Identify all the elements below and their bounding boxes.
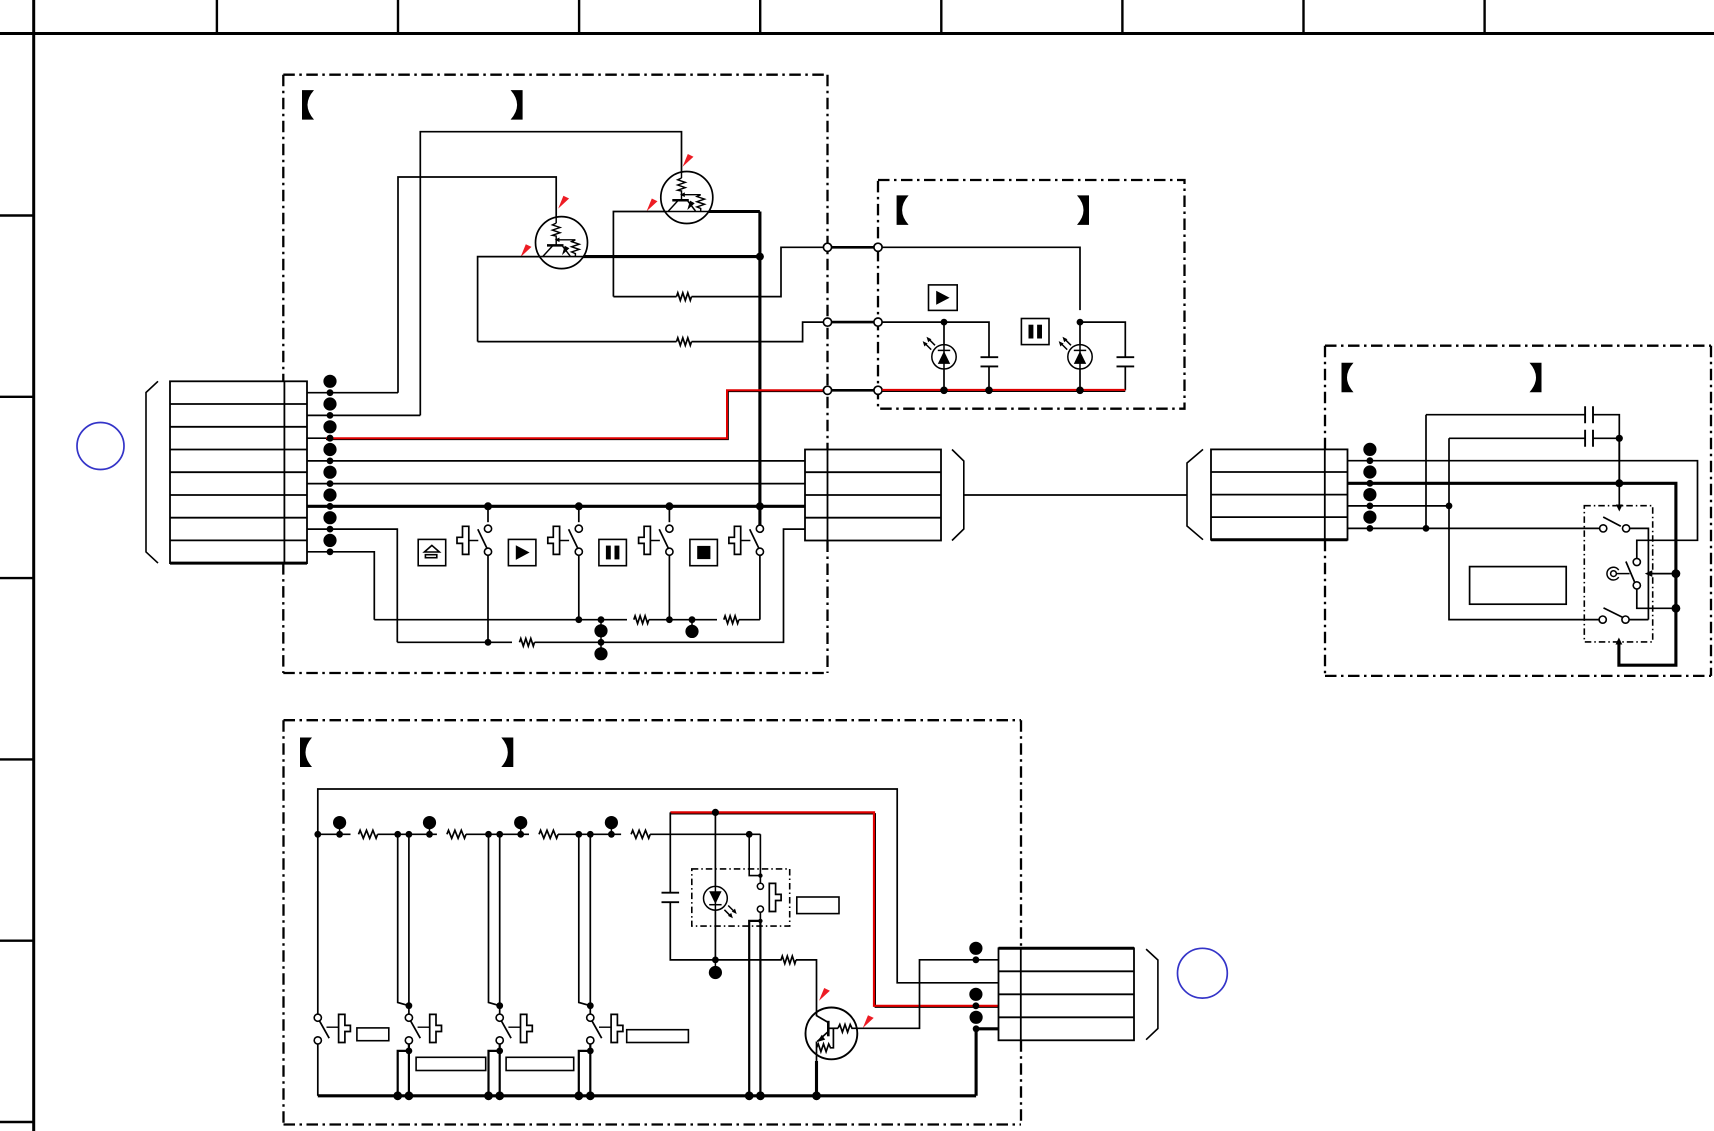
CN4 pin dots column <box>969 942 982 1033</box>
junction dots on ground bus <box>393 1091 821 1100</box>
wire Q1 base riser <box>478 257 540 342</box>
pause key icon <box>599 539 627 565</box>
mech link into switch box top <box>1618 483 1620 505</box>
resistor R4 on line1 <box>724 616 739 624</box>
switch SW-C <box>1599 616 1606 623</box>
switch SW-B (changeover) <box>1633 558 1640 565</box>
tie point dots above sense row <box>333 816 618 838</box>
block border box2 (dash-dot) <box>878 180 1185 409</box>
inter-board link middle <box>823 321 882 324</box>
wire CN3 pin2 thick net <box>1348 483 1676 665</box>
CN3 pin dots column <box>1363 443 1376 532</box>
junction dots line1 <box>575 616 695 623</box>
stop switch S4 <box>756 525 763 532</box>
wire CN1 pin7 riser <box>307 529 397 642</box>
ground bus (thick) <box>318 1094 976 1097</box>
leaf switch plunger <box>769 883 781 911</box>
junction supply/top <box>314 831 321 838</box>
eject key icon <box>418 539 446 565</box>
heading bracket close box3 <box>1530 363 1542 393</box>
junction dots on red return <box>940 387 1084 395</box>
junction pairs on sense row <box>394 831 593 838</box>
wire CN1 pin1 stub <box>307 392 398 394</box>
heading bracket close box4 <box>501 738 513 768</box>
heading bracket open box4 <box>300 738 312 768</box>
wire net pin1 to Q1 collector <box>398 177 556 393</box>
leaf switch contacts <box>757 883 763 889</box>
wire pause LED feed <box>882 247 1080 310</box>
tie point dots below line1 <box>600 620 602 654</box>
resistor R3 on line1 <box>634 616 649 624</box>
play indicator icon <box>929 285 958 311</box>
heading bracket open box1 <box>302 90 314 120</box>
red service arrow at Q2 base <box>647 199 658 212</box>
highlight circle right <box>1178 948 1228 998</box>
pause indicator icon <box>1021 319 1049 345</box>
leaf switch return loop <box>759 912 761 921</box>
wire Q3 emitter <box>816 1055 818 1062</box>
block border box3 (dash-dot) <box>1325 346 1711 676</box>
junction pause LED node <box>1077 319 1084 326</box>
bracket CN1 board edge <box>146 381 158 563</box>
junction LED anode <box>712 809 719 816</box>
wire sense row <box>318 833 351 835</box>
junction dots on common row <box>484 502 764 510</box>
red service arrow at Q3 output <box>863 1015 874 1028</box>
wire cable CN2 to CN3 <box>964 494 1187 496</box>
wire CN1 pin5 to CN2 pin2 <box>307 483 805 485</box>
wire CN3 pin3 <box>1348 505 1450 507</box>
pause switch S3 <box>668 506 670 522</box>
wire net pin2 to Q2 collector <box>420 132 681 416</box>
capacitor C4 <box>1426 414 1585 416</box>
mech link arrow lower <box>1616 638 1623 645</box>
junction Q1 emitter / common <box>756 253 764 261</box>
junction caps to pin2 <box>1615 479 1623 487</box>
junction LED cathode node <box>712 957 719 964</box>
wire LED vertical <box>714 812 716 960</box>
inter-board link upper <box>823 246 882 249</box>
red service arrow at Q2 collector <box>683 154 694 167</box>
wire CN1 pin8 riser <box>307 552 374 620</box>
red service arrow at Q1 collector <box>558 196 569 209</box>
LED D2 (pause) <box>1079 322 1081 345</box>
block border box1 (dash-dot) <box>283 75 827 673</box>
wire play LED feed <box>882 322 989 357</box>
heading bracket open box3 <box>1342 363 1354 393</box>
wire CN1 pin3 red net <box>307 437 326 439</box>
bracket CN2 cable side <box>952 450 964 541</box>
resistor R10 (Q3 base) <box>781 956 796 964</box>
resistor R1 (Q2 base row) <box>613 296 676 298</box>
resistor R2 (Q1 base row) <box>478 341 677 343</box>
red service arrow at Q1 base <box>521 244 532 257</box>
wire key return line1 <box>374 619 627 621</box>
capacitor C2 <box>1117 357 1135 366</box>
connector CN2 (4-pin to mechanism) <box>805 450 941 541</box>
photo sensor box (dash-dot) <box>692 869 790 926</box>
switch column C <box>489 834 500 1005</box>
connector CN4 (4-pin) <box>999 948 1135 1040</box>
bracket CN3 cable side <box>1187 449 1203 539</box>
LED D1 (play) <box>943 322 945 345</box>
heading bracket open box2 <box>897 195 909 225</box>
capacitor C1 <box>981 357 999 366</box>
resistor R7 <box>447 830 466 838</box>
wire Q2 emitter (thick) <box>709 210 760 213</box>
capacitor C5 <box>1449 437 1585 439</box>
switch column A <box>317 834 319 1014</box>
red service arrow at Q3 base <box>819 988 830 1001</box>
transistor Q1 (digital transistor) <box>536 217 588 269</box>
wire Q2 base riser <box>613 212 665 297</box>
wire CN1 pin4 to CN2 pin1 <box>307 460 805 462</box>
resistor R6 <box>359 830 378 838</box>
resistor R5 on line2 <box>520 639 535 647</box>
wire key return line2 <box>397 641 512 643</box>
wire Q3 output to CN4 pin1 <box>857 960 999 1029</box>
wire common thick vertical <box>758 212 761 526</box>
junction dots on thick riser <box>1672 569 1681 578</box>
wiper feed arrow <box>1648 573 1676 575</box>
connector CN3 (4-pin from mechanism) <box>1211 449 1348 539</box>
stop key icon <box>690 539 718 565</box>
mode switch box (dashed) <box>1584 506 1652 642</box>
wire C4 to pin4 row <box>1425 415 1427 529</box>
wire CN3 pin4 to switch A <box>1348 527 1601 529</box>
wire red ground return <box>882 390 1125 392</box>
wire Q1 emitter (thick) <box>583 255 760 258</box>
wire cap C3 branch <box>669 812 671 892</box>
mechanism outline rectangle <box>1470 567 1567 605</box>
switch SW-A <box>1600 525 1607 532</box>
play key icon <box>508 539 536 565</box>
capacitor C3 <box>662 893 680 903</box>
switch column D <box>579 834 591 1005</box>
wire CN3 pin1 to switch B upper <box>1348 461 1698 559</box>
wire CN1 pin2 stub <box>307 414 420 416</box>
eject switch S1 <box>487 506 489 522</box>
wire supply top loop <box>318 789 999 983</box>
CN1 pin dots column <box>323 375 336 555</box>
play switch S2 <box>578 506 580 522</box>
inter-board link lower (red net) <box>823 389 882 392</box>
wire C5 riser to switch C <box>1449 438 1600 619</box>
highlight circle left <box>77 423 124 470</box>
junction dots line2 <box>485 639 492 646</box>
bracket CN4 cable side <box>1146 949 1158 1040</box>
resistor R9 <box>631 830 650 838</box>
wire CN1 pin6 common (thick) <box>307 505 805 508</box>
junction play LED node <box>941 319 948 326</box>
resistor R8 <box>539 830 558 838</box>
LED D3 (sensor) <box>704 886 737 918</box>
leaf switch label rect <box>797 897 839 914</box>
junction C4/C5 <box>1616 435 1623 442</box>
transistor Q2 (digital transistor) <box>661 172 713 224</box>
transistor Q3 (digital transistor) <box>806 1008 858 1060</box>
heading bracket close box2 <box>1077 195 1089 225</box>
heading bracket close box1 <box>511 90 523 120</box>
leaf switch feed loop <box>746 831 753 838</box>
connector CN1 (8-pin board connector) <box>170 381 307 563</box>
wire bus riser to CN4 pin4 (thick) <box>976 1029 998 1096</box>
block border box4 (dash-dot) <box>284 720 1022 1124</box>
switch column B <box>398 834 409 1005</box>
wire red supply <box>670 814 998 1007</box>
